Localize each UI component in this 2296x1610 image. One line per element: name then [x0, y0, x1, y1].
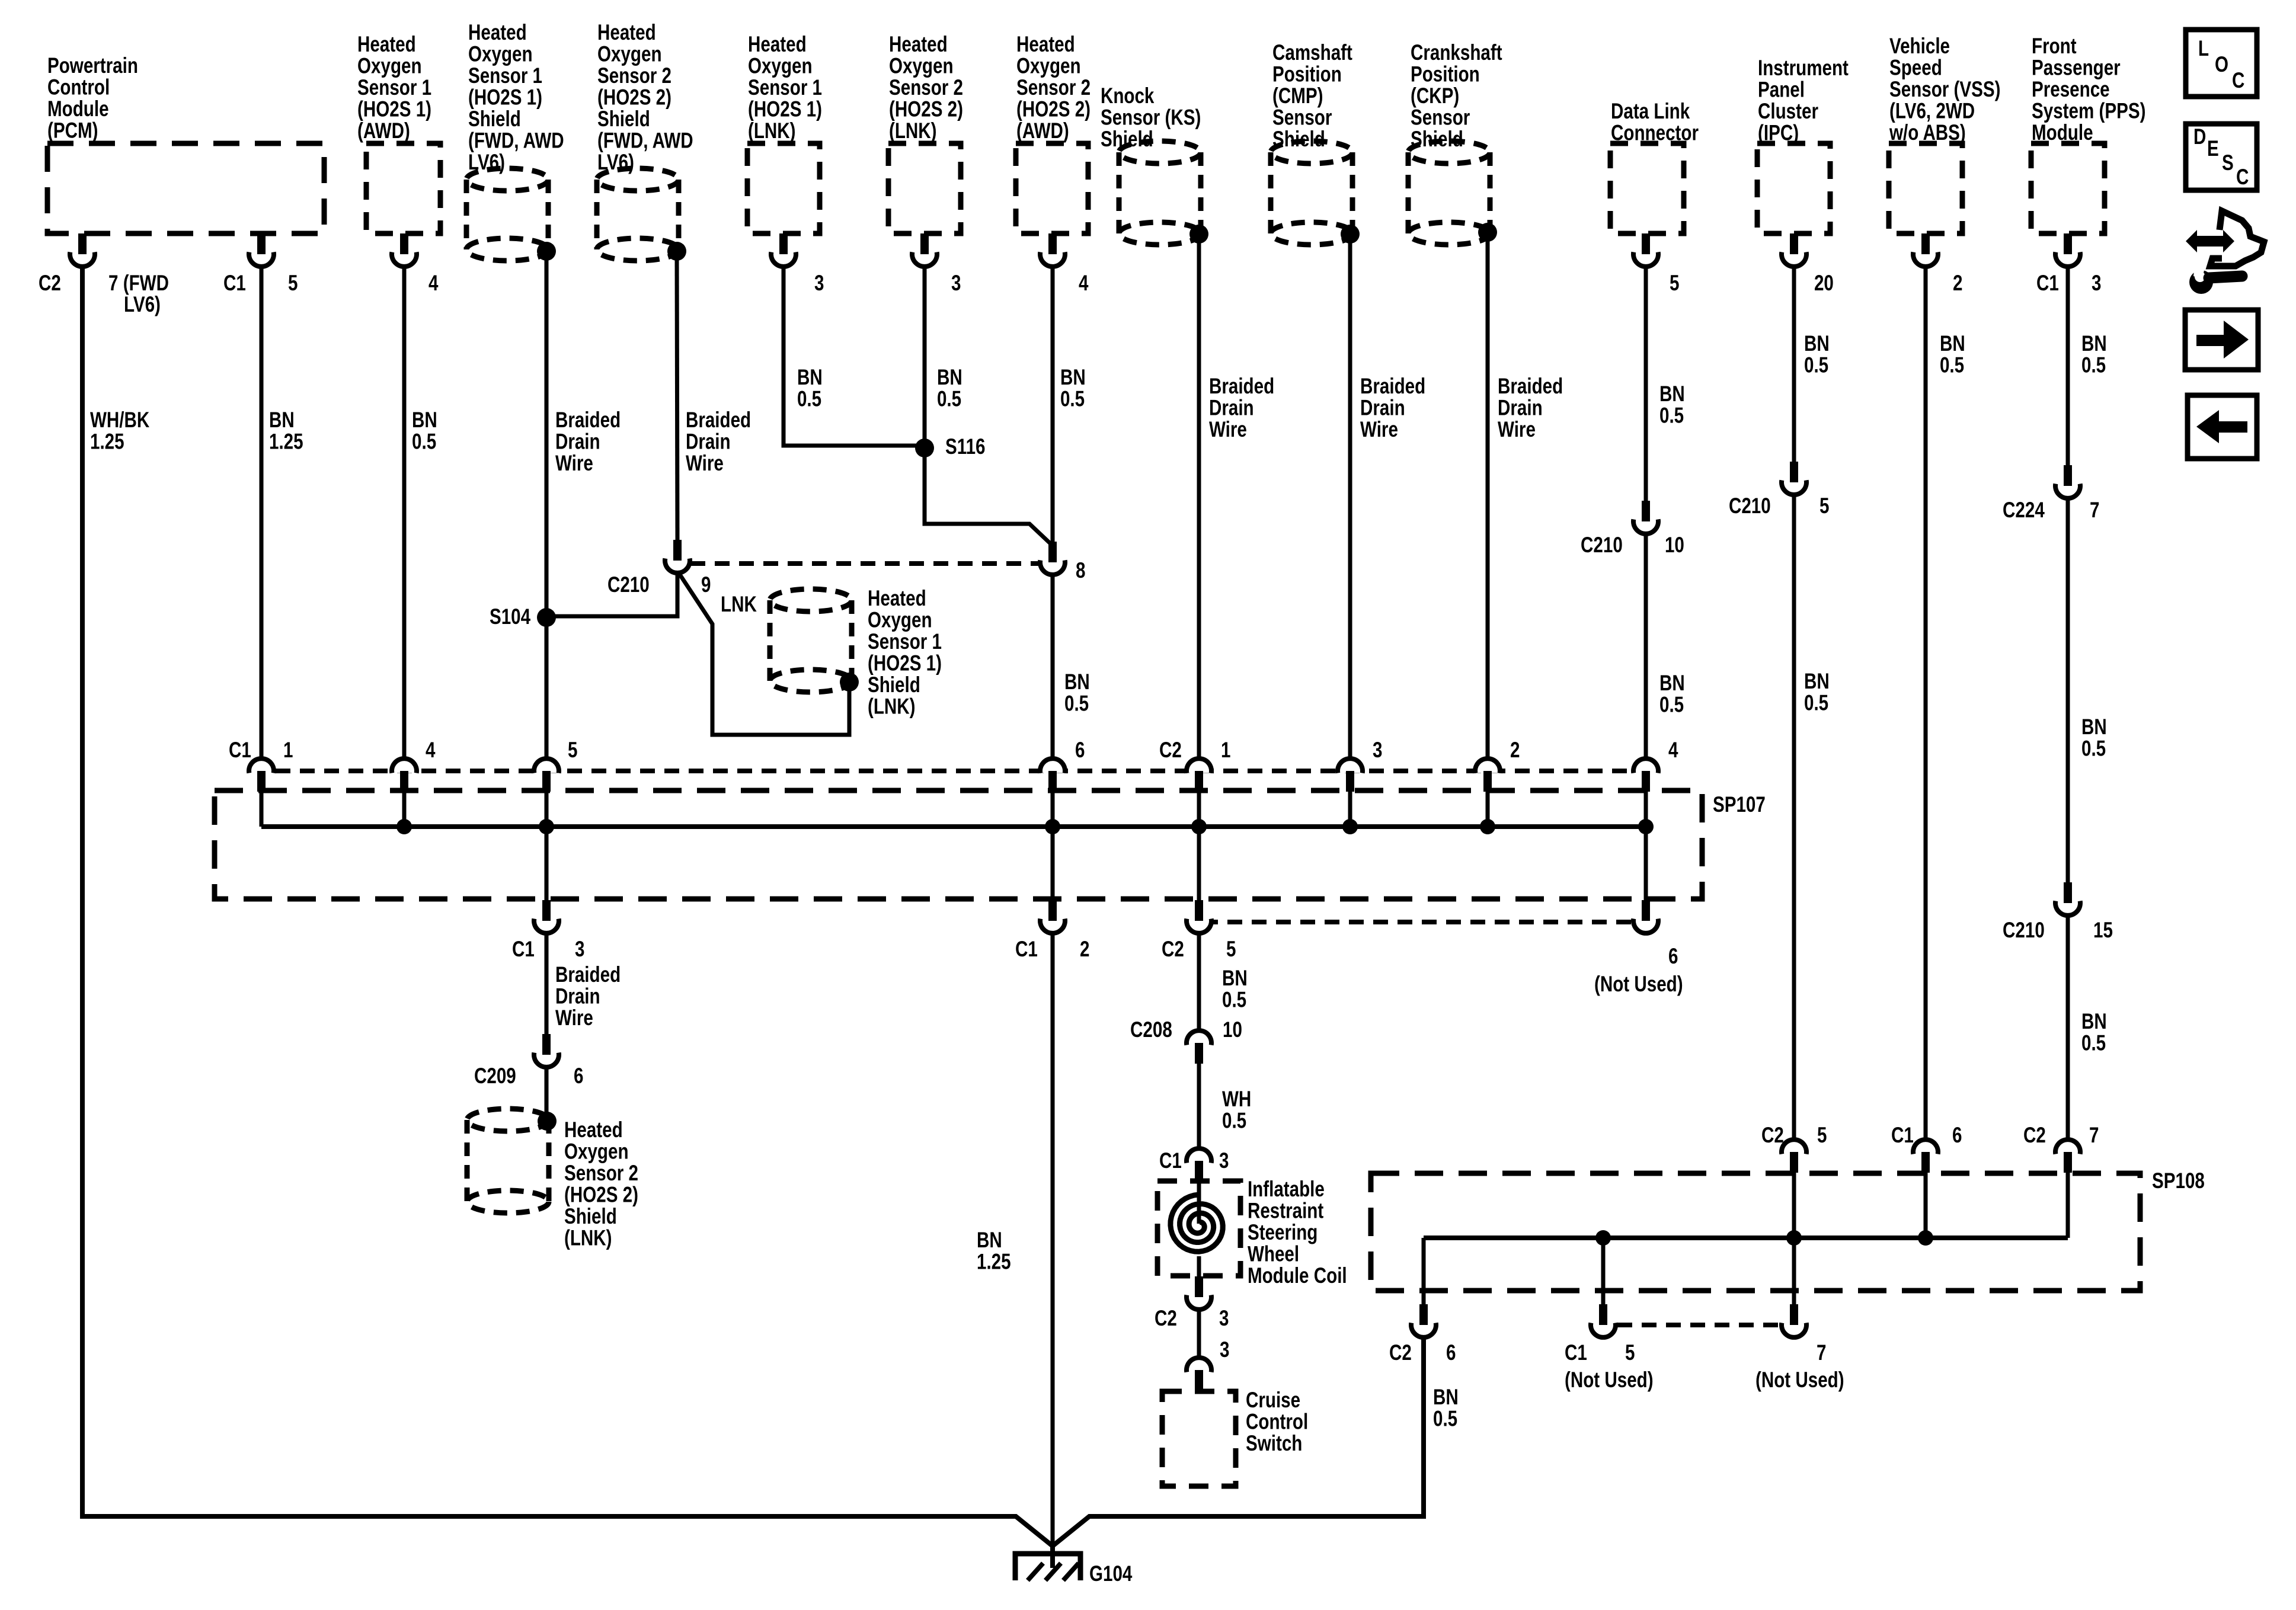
svg-text:Shield: Shield — [1411, 127, 1463, 152]
SP108 not-used pins dotted line — [1617, 1323, 1780, 1327]
svg-text:(HO2S 2): (HO2S 2) — [1016, 97, 1091, 121]
svg-text:O: O — [2215, 53, 2228, 77]
svg-text:0.5: 0.5 — [1222, 1109, 1246, 1133]
SP107 bus junction x=2510 — [1480, 819, 1495, 834]
svg-text:2: 2 — [1080, 937, 1089, 962]
svg-text:(LNK): (LNK) — [868, 694, 916, 719]
wire SP107 lower internal x=922 — [545, 827, 549, 900]
SP107 bus junction x=1776 — [1045, 819, 1060, 834]
Cruise Control Switch box — [1162, 1391, 1236, 1486]
Data Link Connector box — [1610, 143, 1684, 233]
wire braided drain HO2S2 shield — [677, 253, 677, 541]
svg-text:Position: Position — [1411, 62, 1480, 87]
svg-text:(HO2S 2): (HO2S 2) — [889, 97, 963, 121]
HO2S 2 shield (FWD) cylinder — [597, 168, 679, 261]
svg-text:C210: C210 — [2003, 918, 2045, 943]
DESC legend box — [2186, 124, 2257, 190]
svg-text:Presence: Presence — [2032, 78, 2110, 102]
svg-text:Wire: Wire — [555, 452, 593, 476]
connector PCM C2 pin5 lower — [1187, 900, 1211, 933]
SP108 bus junction x=3027 — [1786, 1230, 1802, 1246]
svg-text:2: 2 — [1953, 271, 1962, 296]
svg-text:Drain: Drain — [555, 984, 600, 1009]
connector cruise switch pin3 — [1187, 1358, 1211, 1391]
svg-text:(IPC): (IPC) — [1758, 121, 1799, 145]
Powertrain Control Module (PCM) box — [47, 143, 324, 233]
svg-text:Control: Control — [47, 75, 110, 100]
wire PCM C2-7 WH/BK to ground — [82, 265, 1053, 1546]
Inflatable restraint coil box — [1157, 1181, 1240, 1276]
Knock Sensor shield cylinder — [1119, 141, 1201, 245]
svg-text:Front: Front — [2032, 34, 2077, 59]
PCM C2 pins 5-6 dotted line — [1203, 920, 1642, 924]
svg-text:Switch: Switch — [1246, 1432, 1302, 1456]
svg-text:S: S — [2222, 151, 2234, 175]
svg-text:C210: C210 — [1729, 494, 1771, 518]
svg-text:Sensor 1: Sensor 1 — [748, 76, 822, 100]
svg-text:5: 5 — [1625, 1341, 1635, 1365]
svg-text:Drain: Drain — [686, 430, 731, 454]
wire into coil spiral — [1197, 1179, 1201, 1224]
wire HO2S1 AWD pin4 BN 0.5 — [402, 265, 407, 760]
svg-text:Braided: Braided — [1209, 375, 1274, 399]
svg-text:1.25: 1.25 — [269, 430, 303, 454]
wire C1-3 to C209 braided drain — [545, 932, 549, 1036]
connector SP107 row 6 — [1040, 758, 1065, 792]
HO2S 1 shield (LNK) cylinder — [770, 589, 852, 692]
wire SP107 internal x=2278 — [1348, 790, 1352, 827]
svg-text:0.5: 0.5 — [1804, 353, 1828, 377]
HO2S2 shield drain dot — [667, 242, 686, 261]
svg-text:LV6): LV6) — [124, 293, 161, 317]
connector SP108 C2 pin6 — [1411, 1304, 1436, 1337]
svg-text:Heated: Heated — [564, 1118, 623, 1142]
svg-text:6: 6 — [1075, 738, 1085, 763]
svg-text:C208: C208 — [1130, 1018, 1172, 1042]
svg-text:3: 3 — [575, 937, 584, 962]
connector PCM C1 pin3 lower — [534, 900, 559, 933]
svg-text:7: 7 — [2089, 1124, 2099, 1148]
connector SP107 row 2 — [1475, 758, 1500, 792]
svg-text:Cluster: Cluster — [1758, 100, 1818, 124]
wire SP108 to C1-5 not used — [1601, 1238, 1606, 1305]
svg-text:Speed: Speed — [1889, 56, 1942, 80]
wire CMP shield drain — [1348, 235, 1352, 760]
HO2S1 LNK shield drain dot — [840, 673, 859, 692]
svg-text:Braided: Braided — [1360, 375, 1425, 399]
svg-text:1.25: 1.25 — [90, 430, 124, 454]
svg-text:Oxygen: Oxygen — [468, 42, 533, 66]
svg-text:10: 10 — [1223, 1018, 1242, 1042]
svg-text:E: E — [2207, 137, 2219, 161]
wire VSS pin2 BN 0.5 — [1924, 265, 1928, 1141]
connector PCM C2 pin6 not used — [1633, 900, 1658, 933]
svg-text:Heated: Heated — [748, 33, 807, 57]
svg-text:0.5: 0.5 — [1060, 387, 1085, 411]
svg-text:8: 8 — [1076, 559, 1085, 583]
svg-text:0.5: 0.5 — [1222, 988, 1246, 1012]
wire IPC chain through SP108 to pin7 — [1792, 1172, 1796, 1305]
CKP shield drain dot — [1478, 223, 1497, 242]
svg-text:(CKP): (CKP) — [1411, 84, 1459, 108]
connector C210 pin9 — [665, 540, 690, 573]
svg-text:BN: BN — [1940, 332, 1965, 356]
svg-text:Shield: Shield — [1101, 127, 1153, 152]
svg-text:w/o ABS): w/o ABS) — [1889, 121, 1966, 145]
svg-text:Control: Control — [1246, 1410, 1308, 1434]
wire SP107 internal x=922 — [545, 790, 549, 827]
svg-text:Data Link: Data Link — [1611, 100, 1690, 124]
svg-text:Shield: Shield — [868, 673, 920, 697]
connector SP107 row 4 — [392, 758, 417, 792]
svg-text:C: C — [2236, 165, 2249, 190]
wire SP108 to C2-6 — [1422, 1238, 1426, 1305]
svg-text:(Not Used): (Not Used) — [1755, 1368, 1844, 1393]
Instrument Panel Cluster box — [1757, 143, 1830, 233]
connector SP107 row 3 — [1338, 758, 1363, 792]
svg-text:BN: BN — [412, 408, 437, 433]
wire SP107 internal x=1776 — [1051, 790, 1055, 827]
svg-text:Restraint: Restraint — [1248, 1199, 1323, 1223]
svg-text:9: 9 — [701, 573, 711, 597]
SP108 bus junction x=3249 — [1918, 1230, 1933, 1246]
svg-text:Wire: Wire — [1360, 418, 1398, 442]
Heated Oxygen Sensor 1 (AWD) box — [366, 143, 440, 233]
svg-text:C1: C1 — [1159, 1149, 1182, 1173]
svg-text:Drain: Drain — [1209, 396, 1254, 420]
svg-text:6: 6 — [574, 1064, 583, 1089]
svg-text:C210: C210 — [607, 573, 650, 597]
SP107 bus junction x=922 — [539, 819, 554, 834]
svg-text:Sensor 2: Sensor 2 — [597, 64, 671, 88]
svg-text:BN: BN — [2081, 332, 2107, 356]
connector PPS C1 pin3 — [2055, 233, 2080, 267]
svg-text:Heated: Heated — [868, 587, 926, 611]
svg-text:BN: BN — [797, 366, 823, 390]
svg-text:C2: C2 — [39, 271, 61, 296]
svg-text:LV6): LV6) — [468, 151, 505, 175]
connector C210 pin8 — [1040, 542, 1065, 575]
wire VSS chain into SP108 — [1924, 1172, 1928, 1238]
svg-text:Module: Module — [47, 97, 109, 121]
svg-text:Oxygen: Oxygen — [564, 1140, 629, 1164]
wire DLC pin5 BN 0.5 upper — [1644, 265, 1648, 502]
connector HO2S2 LNK pin3 — [912, 233, 937, 267]
HO2S1 shield drain dot — [537, 242, 556, 261]
svg-text:(FWD, AWD: (FWD, AWD — [597, 129, 693, 153]
wrench and arrow icon — [2186, 211, 2264, 294]
svg-text:S116: S116 — [945, 435, 985, 459]
svg-text:3: 3 — [1220, 1338, 1229, 1362]
svg-text:Oxygen: Oxygen — [1016, 54, 1081, 78]
connector HO2S1 LNK pin3 — [771, 233, 796, 267]
svg-text:5: 5 — [1226, 937, 1236, 962]
connector SP107 row 5 — [534, 758, 559, 792]
Vehicle Speed Sensor box — [1889, 143, 1962, 233]
SP108 splice pack box — [1371, 1173, 2140, 1291]
CMP shield drain dot — [1341, 225, 1360, 244]
svg-text:Sensor 2: Sensor 2 — [1016, 76, 1091, 100]
svg-text:0.5: 0.5 — [1433, 1407, 1457, 1431]
svg-text:Sensor 1: Sensor 1 — [357, 76, 431, 100]
svg-text:C2: C2 — [1389, 1341, 1412, 1365]
svg-text:6: 6 — [1952, 1124, 1962, 1148]
svg-text:Camshaft: Camshaft — [1272, 41, 1352, 65]
svg-text:BN: BN — [1222, 966, 1248, 991]
connector C210 pin10 — [1633, 501, 1658, 534]
svg-text:Oxygen: Oxygen — [868, 608, 932, 632]
svg-text:C224: C224 — [2003, 498, 2045, 523]
svg-text:L: L — [2198, 37, 2209, 61]
wire KS shield drain — [1197, 235, 1201, 760]
svg-text:C210: C210 — [1581, 533, 1623, 558]
svg-text:Heated: Heated — [468, 21, 527, 45]
splice S104 — [537, 608, 556, 627]
svg-text:Knock: Knock — [1101, 84, 1155, 108]
svg-text:C2: C2 — [2023, 1124, 2046, 1148]
coil spiral tail to box bottom — [1197, 1256, 1201, 1277]
svg-text:(HO2S 1): (HO2S 1) — [748, 97, 822, 121]
svg-text:Passenger: Passenger — [2032, 56, 2121, 80]
SP107 bus junction x=2023 — [1191, 819, 1207, 834]
svg-text:D: D — [2193, 125, 2206, 149]
CKP sensor shield cylinder — [1408, 141, 1490, 245]
svg-text:5: 5 — [288, 271, 298, 296]
svg-text:Sensor: Sensor — [1272, 105, 1332, 130]
svg-text:(HO2S 2): (HO2S 2) — [564, 1183, 638, 1207]
svg-text:SP108: SP108 — [2152, 1169, 2205, 1193]
svg-text:(CMP): (CMP) — [1272, 84, 1323, 108]
svg-text:0.5: 0.5 — [1804, 691, 1828, 715]
svg-text:5: 5 — [568, 738, 577, 763]
svg-text:4: 4 — [1079, 271, 1089, 296]
svg-text:7 (FWD: 7 (FWD — [108, 271, 169, 296]
wire PPS pin3 BN 0.5 upper — [2066, 265, 2070, 466]
Heated Oxygen Sensor 2 (AWD) box — [1016, 143, 1088, 233]
svg-text:Braided: Braided — [1498, 375, 1563, 399]
wire IPC pin20 BN 0.5 upper — [1792, 265, 1796, 463]
svg-text:Heated: Heated — [1016, 33, 1075, 57]
svg-text:(FWD, AWD: (FWD, AWD — [468, 129, 564, 153]
connector PCM C2 pin7 — [70, 233, 95, 267]
svg-text:C1: C1 — [1015, 937, 1038, 962]
svg-text:Drain: Drain — [1360, 396, 1405, 420]
wire SP107 internal x=2023 — [1197, 790, 1201, 827]
svg-text:WH/BK: WH/BK — [90, 408, 149, 433]
connector IPC pin20 — [1782, 233, 1806, 267]
connector SP108 C1 pin6 — [1913, 1140, 1938, 1173]
svg-text:Sensor 2: Sensor 2 — [889, 76, 963, 100]
svg-text:Powertrain: Powertrain — [47, 54, 138, 78]
HO2S 2 shield (LNK) cylinder — [467, 1109, 549, 1213]
svg-text:Shield: Shield — [597, 107, 650, 132]
svg-text:Sensor 1: Sensor 1 — [468, 64, 542, 88]
svg-text:Cruise: Cruise — [1246, 1388, 1300, 1413]
svg-text:Position: Position — [1272, 62, 1342, 87]
svg-text:BN: BN — [977, 1228, 1002, 1253]
wire PPS chain into SP108 — [2066, 1172, 2070, 1238]
PCM C1/C2 connector face dotted line — [276, 769, 1631, 773]
svg-text:2: 2 — [1510, 738, 1520, 763]
wire C210-9 to HO2S1 LNK shield — [679, 574, 849, 735]
wire conn8 to SP107 pin6 BN 0.5 — [1051, 574, 1055, 760]
connector HO2S1 AWD pin4 — [392, 233, 417, 267]
svg-text:C2: C2 — [1159, 738, 1182, 763]
svg-text:0.5: 0.5 — [937, 387, 961, 411]
svg-text:BN: BN — [2081, 1010, 2107, 1034]
CMP sensor shield cylinder — [1271, 141, 1352, 245]
connector SP108 C2 pin5 — [1782, 1140, 1806, 1173]
svg-text:Wire: Wire — [1498, 418, 1536, 442]
connector DLC pin5 — [1633, 233, 1658, 267]
wire SP107 lower internal x=2777 — [1644, 827, 1648, 900]
ground G104 symbol — [1015, 1546, 1080, 1580]
connector SP108 C2 pin7 — [2055, 1140, 2080, 1173]
svg-text:3: 3 — [1219, 1307, 1229, 1331]
svg-text:C2: C2 — [1761, 1124, 1784, 1148]
svg-text:Heated: Heated — [357, 33, 416, 57]
svg-text:3: 3 — [1373, 738, 1382, 763]
connector C208 pin10 — [1187, 1030, 1211, 1064]
svg-text:Oxygen: Oxygen — [357, 54, 422, 78]
HO2S 1 shield (FWD) cylinder — [466, 168, 548, 261]
svg-text:C1: C1 — [1891, 1124, 1914, 1148]
SP107 bus junction x=2278 — [1342, 819, 1358, 834]
wire C2-5 BN 0.5 to C208 — [1197, 932, 1201, 1032]
wire PPS BN 0.5 mid — [2066, 498, 2070, 884]
svg-text:WH: WH — [1222, 1087, 1251, 1112]
wire SP107 internal x=2777 — [1644, 790, 1648, 827]
svg-text:C1: C1 — [223, 271, 246, 296]
svg-text:BN: BN — [1064, 670, 1090, 694]
svg-text:Wire: Wire — [686, 452, 724, 476]
svg-text:System (PPS): System (PPS) — [2032, 99, 2145, 123]
svg-text:SP107: SP107 — [1713, 793, 1766, 817]
connector PCM C1 pin5 — [249, 233, 274, 267]
svg-text:3: 3 — [814, 271, 824, 296]
svg-text:3: 3 — [951, 271, 961, 296]
svg-text:BN: BN — [1804, 332, 1830, 356]
SP107 splice bus — [261, 824, 1646, 829]
connector C210 pin15 — [2055, 882, 2080, 916]
svg-text:0.5: 0.5 — [1064, 692, 1089, 716]
svg-text:LNK: LNK — [721, 593, 757, 617]
svg-text:BN: BN — [937, 366, 962, 390]
svg-text:LV6): LV6) — [597, 151, 634, 175]
svg-text:3: 3 — [2092, 271, 2101, 296]
svg-text:C1: C1 — [2036, 271, 2059, 296]
svg-text:4: 4 — [428, 271, 439, 296]
svg-text:(HO2S 1): (HO2S 1) — [357, 97, 431, 121]
Heated Oxygen Sensor 2 (LNK) box — [888, 143, 961, 233]
svg-text:Instrument: Instrument — [1758, 56, 1849, 81]
svg-text:(LNK): (LNK) — [564, 1226, 612, 1250]
connector VSS pin2 — [1913, 233, 1938, 267]
connector SP107 row 4 — [1633, 758, 1658, 792]
svg-text:Oxygen: Oxygen — [889, 54, 954, 78]
wire HO2S2 LNK pin3 through S116 to conn 8 — [925, 265, 1050, 543]
svg-text:15: 15 — [2093, 918, 2113, 943]
svg-text:0.5: 0.5 — [2081, 353, 2106, 377]
svg-text:Steering: Steering — [1248, 1221, 1318, 1245]
wire SP107 lower internal x=2023 — [1197, 827, 1201, 900]
svg-text:3: 3 — [1219, 1149, 1229, 1173]
wire IPC BN 0.5 lower — [1792, 494, 1796, 1141]
wire C209-6 to HO2S2 LNK shield — [545, 1066, 549, 1122]
wire C208-10 WH 0.5 to coil — [1197, 1062, 1201, 1150]
svg-text:Inflatable: Inflatable — [1248, 1177, 1325, 1202]
svg-text:Braided: Braided — [555, 408, 621, 433]
wire SP107 internal x=441 — [260, 790, 264, 827]
svg-text:BN: BN — [1433, 1385, 1459, 1410]
connector C210 pin5 — [1782, 462, 1806, 495]
connector SP107 row C1-1 — [249, 758, 274, 792]
wire HO2S1 LNK pin3 BN 0.5 to S116 — [784, 265, 923, 446]
svg-text:Sensor (KS): Sensor (KS) — [1101, 105, 1201, 130]
svg-text:(LNK): (LNK) — [748, 119, 796, 143]
svg-text:Vehicle: Vehicle — [1889, 34, 1950, 59]
svg-text:0.5: 0.5 — [1659, 404, 1684, 428]
svg-text:Heated: Heated — [889, 33, 948, 57]
svg-text:6: 6 — [1668, 945, 1678, 969]
svg-text:Connector: Connector — [1611, 121, 1699, 145]
svg-text:20: 20 — [1814, 271, 1834, 296]
svg-text:7: 7 — [1817, 1341, 1826, 1365]
coil spiral — [1171, 1195, 1223, 1251]
HO2S2 LNK shield drain dot — [538, 1112, 557, 1131]
connector SP108 C1 pin5 not used — [1591, 1304, 1616, 1337]
svg-text:(PCM): (PCM) — [47, 119, 98, 143]
svg-text:BN: BN — [269, 408, 295, 433]
wire braided drain HO2S1 shield — [545, 253, 549, 760]
svg-text:6: 6 — [1446, 1341, 1456, 1365]
svg-text:0.5: 0.5 — [2081, 737, 2106, 761]
svg-text:C2: C2 — [1155, 1307, 1177, 1331]
SP107 splice pack box — [215, 790, 1702, 899]
svg-text:Sensor 1: Sensor 1 — [868, 630, 942, 654]
svg-text:0.5: 0.5 — [1940, 353, 1964, 377]
svg-text:(AWD): (AWD) — [357, 119, 410, 143]
wire C1-2 BN 1.25 to ground — [1051, 932, 1055, 1546]
SP107 bus junction x=682 — [396, 819, 412, 834]
wire PPS BN 0.5 lower — [2066, 916, 2070, 1141]
svg-text:(Not Used): (Not Used) — [1594, 972, 1683, 997]
svg-text:Sensor 2: Sensor 2 — [564, 1161, 638, 1186]
svg-text:0.5: 0.5 — [1659, 693, 1684, 717]
wire PCM C1-5 BN 1.25 — [260, 265, 264, 760]
svg-text:4: 4 — [1668, 738, 1678, 763]
SP108 splice bus — [1424, 1235, 2068, 1240]
svg-text:10: 10 — [1665, 533, 1684, 558]
connector coil C1 pin3 — [1187, 1148, 1211, 1182]
svg-text:BN: BN — [1804, 670, 1830, 694]
wire SP107 internal x=682 — [402, 790, 407, 827]
svg-text:Shield: Shield — [1272, 127, 1325, 152]
SP108 bus junction x=2705 — [1595, 1230, 1611, 1246]
svg-text:Wheel: Wheel — [1248, 1242, 1299, 1266]
wire coil C2-3 to cruise pin 3 — [1197, 1308, 1201, 1359]
connector PCM C1 pin2 lower — [1040, 900, 1065, 933]
Front Passenger Presence System box — [2031, 143, 2105, 233]
wire C210-9 to S104 — [546, 571, 677, 616]
connector SP108 pin7 not used — [1782, 1304, 1806, 1337]
svg-text:Wire: Wire — [1209, 418, 1247, 442]
svg-text:0.5: 0.5 — [2081, 1031, 2106, 1055]
svg-text:5: 5 — [1819, 494, 1829, 518]
svg-text:0.5: 0.5 — [797, 387, 821, 411]
svg-text:G104: G104 — [1089, 1562, 1133, 1586]
right arrow legend box — [2185, 310, 2258, 370]
